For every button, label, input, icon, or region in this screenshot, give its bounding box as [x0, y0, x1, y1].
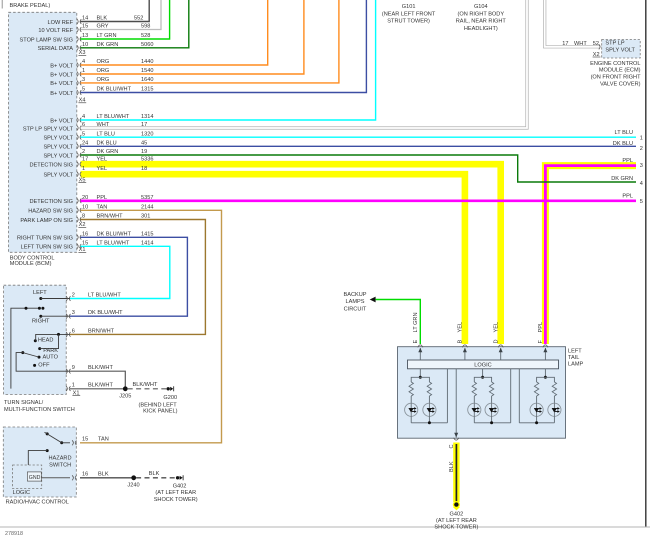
svg-text:LOGIC: LOGIC: [474, 363, 491, 369]
BCM pin 17 YEL 5336 (DETECTION SIG): [29, 156, 153, 168]
tail lamp ground return line pin C: [455, 369, 457, 438]
svg-text:STRUT TOWER): STRUT TOWER): [387, 19, 430, 25]
svg-text:10: 10: [82, 42, 88, 48]
wire BLK tail lamp pin C to G402 (yellow highlight): [453, 443, 459, 503]
svg-text:TAN: TAN: [98, 437, 109, 443]
svg-text:15: 15: [82, 24, 88, 30]
rotated pin letter E and LT GRN: [413, 340, 419, 344]
wire BLK/WHT J205 to G200 (dashed): [128, 388, 167, 390]
svg-text:GND: GND: [29, 475, 41, 481]
hazard switch: [46, 432, 49, 435]
svg-text:J205: J205: [119, 394, 131, 400]
svg-text:1320: 1320: [141, 131, 153, 137]
svg-text:D: D: [493, 339, 499, 343]
svg-text:1440: 1440: [141, 59, 153, 65]
svg-text:BLK/WHT: BLK/WHT: [88, 365, 113, 371]
svg-text:5060: 5060: [141, 42, 153, 48]
svg-text:2: 2: [82, 149, 85, 155]
svg-text:HEAD: HEAD: [38, 338, 54, 344]
ECM connector X2: [593, 52, 601, 58]
tail lamp LED group 2: [468, 369, 511, 425]
svg-text:BLK: BLK: [98, 472, 109, 478]
wire GND to pin 16: [41, 477, 70, 479]
wire LT GRN backup lamps to tail lamp pin E: [376, 300, 421, 345]
BCM pin 4 LT BLU/WHT 1314 (B+ VOLT): [50, 114, 153, 124]
svg-text:MULTI-FUNCTION SWITCH: MULTI-FUNCTION SWITCH: [4, 407, 75, 413]
svg-text:SPLY VOLT: SPLY VOLT: [43, 145, 73, 151]
svg-text:STP LP SPLY VOLT: STP LP SPLY VOLT: [23, 126, 74, 132]
svg-text:4: 4: [640, 181, 643, 187]
svg-text:LT BLU/WHT: LT BLU/WHT: [97, 240, 130, 246]
switch common bus: [11, 308, 40, 388]
svg-text:STP LP: STP LP: [605, 41, 624, 47]
svg-text:LT BLU/WHT: LT BLU/WHT: [97, 114, 130, 120]
svg-text:BLK/WHT: BLK/WHT: [133, 382, 158, 388]
BCM pin 1 YEL 18 (SPLY VOLT): [43, 166, 147, 178]
BCM pin 14 BLK 552 (LOW REF): [48, 16, 144, 26]
svg-text:G402: G402: [450, 511, 464, 517]
wire BLK radio pin 16 to J240: [80, 477, 134, 479]
svg-text:ORG: ORG: [97, 59, 110, 65]
BCM pin 4 ORG 1440 (B+ VOLT): [50, 59, 153, 69]
svg-text:PPL: PPL: [622, 194, 633, 200]
svg-text:DK BLU/WHT: DK BLU/WHT: [97, 87, 132, 93]
svg-text:PPL: PPL: [622, 158, 633, 164]
svg-text:BRN/WHT: BRN/WHT: [88, 328, 115, 334]
svg-text:B+ VOLT: B+ VOLT: [50, 63, 73, 69]
svg-text:1: 1: [72, 383, 75, 389]
wire RIGHT contact to pin 3: [41, 315, 70, 317]
junction J205: [123, 386, 128, 391]
svg-text:BLK/WHT: BLK/WHT: [88, 383, 113, 389]
wire ORG 1440 (pin 4 B+): [81, 0, 268, 65]
wire GRY 598 (pin 15): [81, 0, 162, 30]
radio hvac control box: [3, 427, 76, 497]
wire DK BLU/WHT 1315 (pin 5 B+): [81, 0, 367, 93]
svg-text:LT BLU/WHT: LT BLU/WHT: [88, 293, 121, 299]
svg-text:5336: 5336: [141, 156, 153, 162]
svg-text:TURN SIGNAL/: TURN SIGNAL/: [4, 400, 44, 406]
svg-text:G402: G402: [173, 483, 187, 489]
turn signal multifunction switch box: [4, 285, 67, 394]
svg-text:KICK PANEL): KICK PANEL): [143, 409, 178, 415]
switch connector X1: [72, 390, 80, 396]
wire LT BLU/WHT 1314 (pin 4 B+): [81, 0, 376, 120]
svg-text:17: 17: [562, 41, 568, 47]
rotated pin letter F and PPL: [538, 340, 544, 344]
tail lamp pin C bump: [454, 438, 459, 440]
svg-text:OFF: OFF: [38, 363, 50, 369]
svg-text:LEFT: LEFT: [33, 290, 47, 296]
svg-text:B: B: [458, 340, 464, 344]
svg-text:BACKUP: BACKUP: [343, 292, 366, 298]
svg-text:HAZARD SW SIG: HAZARD SW SIG: [28, 209, 73, 215]
svg-text:14: 14: [82, 16, 88, 22]
svg-text:SPLY VOLT: SPLY VOLT: [43, 136, 73, 142]
radio pin 16 BLK: [72, 472, 109, 481]
svg-text:10: 10: [82, 204, 88, 210]
svg-text:MODULE (BCM): MODULE (BCM): [10, 261, 52, 267]
svg-text:DK GRN: DK GRN: [97, 149, 119, 155]
svg-text:RADIO/HVAC CONTROL: RADIO/HVAC CONTROL: [6, 500, 69, 506]
svg-text:LT GRN: LT GRN: [413, 313, 419, 333]
svg-text:SPLY VOLT: SPLY VOLT: [605, 48, 635, 54]
svg-text:4: 4: [82, 114, 85, 120]
wire BLK J240 to G402 (dashed): [136, 477, 176, 479]
wire TAN 2144 (pin 10 hazard sw sig to radio/hvac): [80, 210, 222, 442]
svg-text:278918: 278918: [5, 531, 23, 537]
svg-text:(ON FRONT RIGHT: (ON FRONT RIGHT: [591, 75, 642, 81]
arrows from logic to pins: [419, 348, 421, 360]
svg-text:(BEHIND LEFT: (BEHIND LEFT: [139, 402, 178, 408]
BCM connector X2: [78, 222, 86, 228]
BCM pin 8 BRN/WHT 301 (PARK LAMP ON SIG): [20, 214, 150, 224]
wire BLK/WHT switch pin 1 to J205: [70, 388, 125, 390]
svg-text:2: 2: [72, 293, 75, 299]
ECM pin connector: [602, 42, 603, 46]
wire YEL 5336 (pin 17 detection sig, to tail lamp pin D): [81, 164, 501, 344]
BCM pin 3 ORG 1640 (B+ VOLT): [50, 77, 153, 87]
svg-text:24: 24: [82, 140, 88, 146]
BCM connector X3: [78, 50, 86, 56]
BCM pin 6 WHT 17 (STP LP SPLY VOLT): [23, 122, 147, 132]
svg-text:YEL: YEL: [97, 156, 108, 162]
wire BLK/WHT switch pin 9 to J205: [70, 371, 125, 389]
svg-text:LT BLU: LT BLU: [97, 131, 115, 137]
svg-text:HEADLIGHT): HEADLIGHT): [464, 26, 498, 32]
junction J240: [131, 475, 136, 480]
svg-text:LT GRN: LT GRN: [97, 33, 117, 39]
ground G200: [167, 387, 170, 390]
BCM pin 10 DK GRN 5060 (SERIAL DATA): [38, 42, 154, 52]
svg-text:SPLY VOLT: SPLY VOLT: [43, 173, 73, 179]
svg-text:1: 1: [82, 68, 85, 74]
svg-text:B+ VOLT: B+ VOLT: [50, 81, 73, 87]
wire PPL (off page right 3, to tail lamp pin F) yellow highlight: [545, 166, 636, 344]
svg-text:1314: 1314: [141, 114, 153, 120]
wire YEL 18 (pin 1 supply, to tail lamp pin B): [81, 174, 465, 344]
wire ORG 1540 (pin 1 B+): [81, 0, 304, 74]
stop lamp switch box edge fragment: [1, 0, 3, 9]
BCM connector X1: [78, 247, 86, 253]
svg-text:SHOCK TOWER): SHOCK TOWER): [154, 497, 198, 503]
engine control module ECM box: [602, 40, 641, 59]
svg-text:15: 15: [82, 437, 88, 443]
switch pin 9 BLK/WHT: [66, 365, 113, 374]
wire DK BLU/WHT 1415 (pin 16 right turn to switch pin 3): [70, 237, 187, 316]
switch pin 1 BLK/WHT: [66, 383, 113, 392]
svg-text:BLK: BLK: [97, 16, 108, 22]
svg-text:1315: 1315: [141, 87, 153, 93]
svg-text:301: 301: [141, 214, 150, 220]
svg-text:528: 528: [141, 33, 150, 39]
BCM pin 15 LT BLU/WHT 1414 (LEFT TURN SW SIG): [21, 240, 154, 250]
svg-text:(AT LEFT REAR: (AT LEFT REAR: [155, 490, 196, 496]
svg-text:5: 5: [640, 199, 643, 205]
svg-text:B+ VOLT: B+ VOLT: [50, 118, 73, 124]
BCM pin 5 DK BLU/WHT 1315 (B+ VOLT): [50, 87, 153, 97]
svg-text:4: 4: [82, 59, 85, 65]
wire ORG 1640 (pin 3 B+): [81, 0, 339, 83]
svg-text:LOGIC: LOGIC: [13, 490, 30, 496]
rotated pin letter D and YEL: [493, 339, 499, 343]
svg-text:RAIL, NEAR RIGHT: RAIL, NEAR RIGHT: [456, 19, 507, 25]
svg-text:SPLY VOLT: SPLY VOLT: [43, 153, 73, 159]
svg-text:SERIAL DATA: SERIAL DATA: [38, 46, 74, 52]
svg-text:1540: 1540: [141, 68, 153, 74]
svg-text:PARK: PARK: [43, 348, 58, 354]
svg-text:3: 3: [72, 310, 75, 316]
switch pin 2 LT BLU/WHT: [66, 293, 121, 302]
svg-text:9: 9: [72, 365, 75, 371]
svg-text:AUTO: AUTO: [43, 355, 59, 361]
svg-text:DETECTION SIG: DETECTION SIG: [29, 163, 73, 169]
svg-text:DK BLU: DK BLU: [97, 140, 117, 146]
radio pin 15 TAN: [72, 437, 109, 446]
svg-text:598: 598: [141, 24, 150, 30]
svg-text:CIRCUIT: CIRCUIT: [344, 306, 367, 312]
svg-text:E: E: [413, 340, 419, 344]
wire WHT 52 (to ECM stp lp sply volt): [545, 0, 600, 47]
svg-text:ORG: ORG: [97, 68, 110, 74]
svg-text:GRY: GRY: [97, 24, 109, 30]
wire DK GRN 5060 (pin 10, serial data): [81, 0, 189, 48]
svg-text:G101: G101: [402, 4, 416, 10]
svg-text:PPL: PPL: [538, 322, 544, 333]
svg-text:TAIL: TAIL: [568, 355, 579, 361]
svg-text:DETECTION SIG: DETECTION SIG: [29, 199, 73, 205]
blade to AUTO with feed to pin 9: [21, 351, 24, 354]
svg-text:HAZARD: HAZARD: [49, 456, 72, 462]
wire pin6 feed to HEAD: [36, 334, 70, 340]
svg-text:BRN/WHT: BRN/WHT: [97, 214, 124, 220]
svg-text:(NEAR LEFT FRONT: (NEAR LEFT FRONT: [382, 11, 436, 17]
BCM pin 10 TAN 2144 (HAZARD SW SIG): [28, 204, 153, 214]
svg-text:3: 3: [640, 163, 643, 169]
svg-text:BRAKE PEDAL): BRAKE PEDAL): [10, 3, 51, 9]
svg-text:PARK LAMP ON SIG: PARK LAMP ON SIG: [20, 218, 73, 224]
svg-text:DK BLU: DK BLU: [613, 141, 633, 147]
ground G402 (rear): [453, 501, 460, 508]
svg-text:8: 8: [82, 214, 85, 220]
svg-text:18: 18: [141, 166, 147, 172]
BCM pin 20 PPL 5357 (DETECTION SIG): [29, 195, 153, 205]
svg-text:J240: J240: [127, 483, 139, 489]
BCM pin 1 ORG 1540 (B+ VOLT): [50, 68, 153, 78]
svg-text:VALVE COVER): VALVE COVER): [600, 81, 641, 87]
svg-text:17: 17: [82, 156, 88, 162]
svg-text:16: 16: [82, 472, 88, 478]
svg-text:SWITCH: SWITCH: [49, 462, 71, 468]
svg-text:1414: 1414: [141, 240, 153, 246]
wire LT GRN 528 (pin 13, stop lamp sw sig): [81, 0, 170, 39]
body control module BCM box: [9, 12, 77, 252]
svg-text:B+ VOLT: B+ VOLT: [50, 72, 73, 78]
svg-text:LT BLU: LT BLU: [615, 130, 633, 136]
svg-text:TAN: TAN: [97, 204, 108, 210]
tail lamp LED group 3: [519, 369, 561, 425]
svg-text:LEFT: LEFT: [568, 348, 582, 354]
wire DK BLU 45 (pin 24 supply, off page right 2): [81, 145, 637, 147]
svg-text:52: 52: [593, 41, 599, 47]
svg-text:STOP LAMP SW SIG: STOP LAMP SW SIG: [20, 37, 73, 43]
wire LT BLU/WHT 1414 (pin 15 left turn to switch pin 2): [70, 246, 170, 298]
BCM pin 16 DK BLU/WHT 1415 (RIGHT TURN SW SIG): [17, 231, 154, 241]
svg-text:1640: 1640: [141, 77, 153, 83]
svg-text:DK GRN: DK GRN: [97, 42, 119, 48]
svg-text:1: 1: [82, 166, 85, 172]
page bottom separator: [0, 526, 650, 528]
BCM connector X5: [78, 177, 86, 183]
svg-text:YEL: YEL: [493, 322, 499, 333]
svg-text:2: 2: [640, 146, 643, 152]
tail lamp logic module bar: [408, 360, 559, 369]
svg-text:BLK: BLK: [149, 471, 160, 477]
ground G402 (left): [176, 476, 179, 479]
svg-text:1: 1: [640, 136, 643, 142]
wire LEFT contact to pin 2: [41, 298, 70, 300]
svg-text:45: 45: [141, 140, 147, 146]
svg-text:(ON RIGHT BODY: (ON RIGHT BODY: [458, 11, 505, 17]
wire DK GRN 19 (pin 2 supply, off page right 4): [81, 155, 637, 182]
svg-text:DK BLU/WHT: DK BLU/WHT: [97, 231, 132, 237]
switch pin 6 BRN/WHT: [66, 328, 115, 337]
left tail lamp box: [398, 347, 566, 439]
svg-text:LAMP: LAMP: [568, 362, 584, 368]
rotated pin letter B and YEL: [458, 340, 464, 344]
BCM pin 13 LT GRN 528 (STOP LAMP SW SIG): [20, 33, 151, 43]
svg-text:6: 6: [72, 328, 75, 334]
rotated pin letter C and BLK: [449, 444, 455, 448]
svg-text:SHOCK TOWER): SHOCK TOWER): [434, 525, 478, 531]
svg-text:LAMPS: LAMPS: [346, 299, 365, 305]
svg-text:10 VOLT REF: 10 VOLT REF: [38, 28, 73, 34]
svg-text:DK BLU/WHT: DK BLU/WHT: [88, 310, 123, 316]
svg-text:YEL: YEL: [458, 322, 464, 333]
logic sub box: [13, 465, 42, 489]
svg-text:G200: G200: [163, 395, 177, 401]
svg-text:5: 5: [82, 131, 85, 137]
BCM pin 15 GRY 598 (10 VOLT REF): [38, 24, 150, 34]
svg-text:RIGHT: RIGHT: [32, 318, 50, 324]
svg-text:ENGINE CONTROL: ENGINE CONTROL: [590, 61, 640, 67]
wire BRN/WHT 301 (pin 8 park lamp to multifunction switch pin 6): [70, 220, 205, 335]
svg-text:MODULE (ECM): MODULE (ECM): [599, 68, 641, 74]
tail lamp LED group 1: [405, 369, 448, 425]
BCM pin 5 LT BLU 1320 (SPLY VOLT): [43, 131, 153, 141]
svg-text:2144: 2144: [141, 204, 153, 210]
svg-text:5: 5: [82, 87, 85, 93]
switch pin 3 DK BLU/WHT: [66, 310, 123, 319]
wire PPL 5357 (pin 20 detection sig, off page right 5): [81, 200, 637, 203]
svg-text:1415: 1415: [141, 231, 153, 237]
svg-text:RIGHT TURN SW SIG: RIGHT TURN SW SIG: [17, 236, 73, 242]
svg-text:(AT LEFT REAR: (AT LEFT REAR: [436, 518, 477, 524]
svg-text:G104: G104: [474, 4, 488, 10]
wire LT BLU 1320 (pin 5 supply, off page right 1): [81, 136, 637, 138]
svg-text:B+ VOLT: B+ VOLT: [50, 91, 73, 97]
svg-text:F: F: [538, 340, 544, 344]
BCM pin 24 DK BLU 45 (SPLY VOLT): [43, 140, 147, 150]
svg-text:552: 552: [134, 16, 143, 22]
GND box: [27, 472, 41, 481]
svg-text:DK GRN: DK GRN: [611, 176, 633, 182]
svg-text:15: 15: [82, 240, 88, 246]
svg-text:16: 16: [82, 231, 88, 237]
svg-text:LEFT TURN SW SIG: LEFT TURN SW SIG: [21, 245, 73, 251]
svg-text:LOW REF: LOW REF: [48, 20, 74, 26]
svg-text:ORG: ORG: [97, 77, 110, 83]
BCM pin 2 DK GRN 19 (SPLY VOLT): [43, 149, 147, 159]
svg-text:WHT: WHT: [574, 41, 587, 47]
wire BLK 552 (pin 14 to stop lamp switch): [81, 0, 150, 22]
svg-text:YEL: YEL: [97, 166, 108, 172]
tail lamp pin bumps: [418, 345, 423, 347]
svg-text:3: 3: [82, 77, 85, 83]
svg-text:19: 19: [141, 149, 147, 155]
page right border: [645, 0, 647, 527]
svg-text:13: 13: [82, 33, 88, 39]
wire WHT 17 (pin 6 stop lamp supply): [81, 0, 528, 128]
BCM connector X4: [78, 98, 86, 104]
